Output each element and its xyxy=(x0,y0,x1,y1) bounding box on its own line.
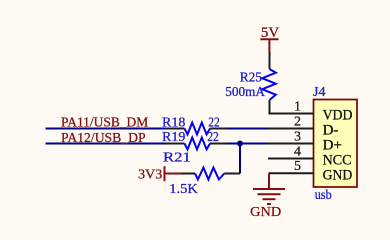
svg-text:GND: GND xyxy=(323,168,353,184)
svg-text:PA12/USB_DP: PA12/USB_DP xyxy=(61,131,146,146)
resistor R21 xyxy=(181,168,240,180)
svg-text:22: 22 xyxy=(208,115,220,130)
svg-text:2: 2 xyxy=(294,115,301,130)
svg-text:5: 5 xyxy=(294,159,301,174)
connector J4 box xyxy=(314,100,358,188)
svg-text:4: 4 xyxy=(294,145,301,160)
svg-text:NCC: NCC xyxy=(323,153,352,169)
pin 5 xyxy=(269,172,314,174)
svg-text:J4: J4 xyxy=(313,85,325,100)
pin 2 xyxy=(268,128,314,130)
wire pin5 to ground xyxy=(268,174,270,189)
svg-text:PA11/USB_DM: PA11/USB_DM xyxy=(61,116,149,131)
svg-text:VDD: VDD xyxy=(323,108,353,124)
svg-text:D+: D+ xyxy=(323,138,342,154)
resistor R25 xyxy=(262,69,276,100)
wire R18 to pin2 xyxy=(227,128,268,130)
svg-text:D-: D- xyxy=(323,123,339,139)
svg-text:22: 22 xyxy=(207,130,219,145)
pin 3 xyxy=(268,143,314,145)
wire 5V to R25 xyxy=(269,52,271,69)
wire PA11/USB_DM xyxy=(46,128,167,130)
svg-text:GND: GND xyxy=(250,205,281,220)
svg-text:R19: R19 xyxy=(162,130,185,145)
wire R19 to pin3 xyxy=(227,143,268,145)
pin 4 xyxy=(268,158,314,160)
resistor R19 xyxy=(165,138,227,150)
wire junction down to R21 xyxy=(239,144,241,174)
svg-text:usb: usb xyxy=(315,187,332,202)
power port 5V xyxy=(260,25,279,52)
svg-text:500mA: 500mA xyxy=(225,85,266,100)
power port 3V3 xyxy=(138,166,166,182)
junction dot xyxy=(237,141,243,147)
svg-text:1: 1 xyxy=(294,100,301,115)
wire 3V3 to R21 xyxy=(166,173,181,175)
wire PA12/USB_DP xyxy=(46,143,166,145)
svg-text:1.5K: 1.5K xyxy=(169,182,198,197)
ground symbol xyxy=(253,189,285,204)
svg-text:R21: R21 xyxy=(163,151,191,166)
svg-text:R25: R25 xyxy=(240,70,262,85)
resistor R18 xyxy=(166,123,228,135)
svg-text:3V3: 3V3 xyxy=(138,168,162,183)
svg-text:3: 3 xyxy=(294,130,301,145)
svg-text:R18: R18 xyxy=(162,115,185,130)
wire R25 to pin1 xyxy=(270,100,314,114)
